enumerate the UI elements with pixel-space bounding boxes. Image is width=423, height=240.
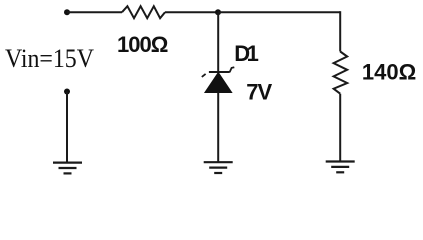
svg-text:7V: 7V: [246, 80, 272, 105]
node A junction dot: [215, 9, 221, 15]
zener diode D1: anode triangle (filled, pointing up): [205, 73, 232, 93]
wire: Vin- down to left ground: [66, 92, 68, 163]
ground (middle): [204, 162, 233, 173]
svg-text:140Ω: 140Ω: [362, 60, 416, 85]
node Vin+ terminal dot: [64, 9, 70, 15]
wire: R1 to node A: [165, 11, 218, 13]
label D1: [234, 41, 259, 66]
resistor R2 (140 ohm) vertical zigzag: [334, 52, 348, 94]
wire: Vin+ to resistor R1: [67, 11, 122, 13]
wire: R2 to right ground: [339, 94, 341, 162]
svg-text:1: 1: [247, 41, 259, 66]
ground (right): [326, 162, 355, 173]
wire: D1 anode to middle ground: [217, 93, 219, 163]
label 100Ω: [117, 32, 168, 57]
zener diode D1: cathode bar with bent ends: [202, 67, 235, 77]
wire: top-right corner down to resistor R2: [339, 11, 341, 51]
label Vin=15V: [5, 43, 95, 73]
ground (left): [53, 163, 82, 174]
node Vin- terminal dot: [64, 89, 70, 95]
label 7V: [246, 80, 272, 105]
resistor R1 (100 ohm) zigzag: [122, 6, 165, 18]
wire: node A to top-right corner: [218, 11, 340, 13]
svg-text:100Ω: 100Ω: [117, 32, 168, 57]
label 140Ω: [362, 60, 416, 85]
svg-text:Vin=15V: Vin=15V: [5, 43, 95, 73]
wire: node A down to zener D1 cathode: [217, 12, 219, 72]
